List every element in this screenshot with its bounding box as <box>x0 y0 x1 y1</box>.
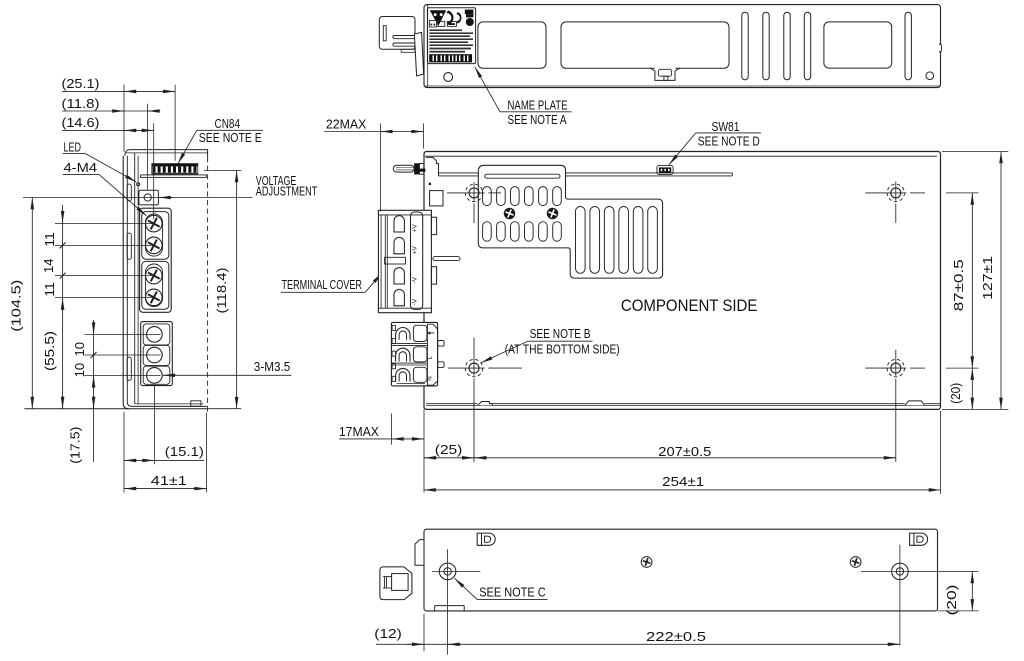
left view panel line 2 <box>137 156 139 404</box>
svg-text:N: N <box>427 376 434 380</box>
svg-text:207±0.5: 207±0.5 <box>658 444 711 459</box>
vent bracket ovals <box>483 187 562 242</box>
flange slot 1 <box>127 184 131 201</box>
svg-text:(15.1): (15.1) <box>165 444 204 459</box>
voltage adjustment bracket <box>139 190 159 205</box>
left view hidden edge (dashed) <box>207 157 209 413</box>
top view bottom edge thick line <box>425 85 941 87</box>
AC pointer lines <box>85 334 161 375</box>
svg-text:11: 11 <box>42 232 57 247</box>
left view top lid <box>125 150 208 157</box>
ext line LED/pot <box>147 104 149 190</box>
AC screw M3.5 #3 <box>147 368 163 384</box>
svg-text:22MAX: 22MAX <box>326 116 367 131</box>
component bottom clip left <box>477 401 492 406</box>
dim 17MAX <box>339 424 424 439</box>
top view vent slots <box>742 12 811 80</box>
svg-text:CN84: CN84 <box>215 116 241 131</box>
svg-text:-V: -V <box>412 276 419 283</box>
svg-text:14: 14 <box>41 258 56 273</box>
D stamp left <box>477 533 495 545</box>
small dot on edge <box>429 183 431 185</box>
top view chassis body <box>424 5 941 88</box>
output block divider <box>385 257 406 264</box>
left view inner flange edge <box>127 156 207 407</box>
chain arrows/ticks <box>60 209 66 409</box>
output terminal group 2 <box>142 261 169 309</box>
output terminal recess 1 <box>145 214 162 256</box>
dim (25) and 207±0.5 <box>424 442 896 459</box>
AC screw M3.5 #1 <box>147 327 163 343</box>
top view connector lower lip <box>401 49 415 52</box>
name plate label <box>427 8 475 64</box>
bottom screw left <box>432 549 480 654</box>
bottom view body <box>424 529 938 611</box>
svg-text:COMPONENT SIDE: COMPONENT SIDE <box>621 296 758 315</box>
svg-text:17MAX: 17MAX <box>339 424 379 439</box>
bottom view connector housing <box>380 567 412 600</box>
chassis rail bar <box>439 173 733 176</box>
top view input connector housing <box>379 17 415 50</box>
AC block outline (component view) <box>391 322 437 386</box>
output clamp 1 <box>394 216 404 232</box>
dim (20) bottom <box>944 571 973 615</box>
AC label ground <box>427 331 434 335</box>
ext line CN84 center <box>174 85 176 161</box>
connector CN84 (left view) <box>152 164 198 174</box>
output clamp 4 <box>394 289 404 305</box>
label SEE NOTE B <box>481 326 620 363</box>
label LED <box>63 139 136 182</box>
AC input block outline (left view) <box>141 322 173 386</box>
AC block divider bands <box>391 344 427 365</box>
AC label L <box>427 356 434 360</box>
svg-text:87±0.5: 87±0.5 <box>951 259 966 311</box>
svg-text:11: 11 <box>42 282 57 297</box>
svg-text:10: 10 <box>72 342 87 357</box>
svg-text:127±1: 127±1 <box>980 256 995 300</box>
output terminal block outline (left view) <box>140 208 172 312</box>
svg-text:(12): (12) <box>374 626 402 641</box>
svg-text:+V: +V <box>412 224 419 233</box>
svg-text:-V: -V <box>412 298 419 305</box>
AC label N <box>427 376 434 380</box>
top view pilot circle <box>444 73 453 82</box>
mounting hole bottom-left <box>448 338 522 462</box>
left view bottom baseline <box>24 408 208 410</box>
svg-text:(55.5): (55.5) <box>42 331 57 371</box>
output labels +V -V <box>412 224 419 306</box>
top view cutout 1 <box>478 22 546 68</box>
svg-text:254±1: 254±1 <box>662 474 704 489</box>
label 4-M4 <box>63 160 147 216</box>
svg-text:(11.8): (11.8) <box>62 96 100 111</box>
output screw M4 #2 <box>145 236 163 254</box>
label TERMINAL COVER <box>281 273 382 292</box>
bottom view connector socket <box>383 577 392 588</box>
output clamp 3 <box>394 268 404 284</box>
dim (12) and 222±0.5 <box>374 626 900 644</box>
label CN84 <box>178 116 263 164</box>
chain dim line 10/10 <box>93 320 95 462</box>
svg-text:SEE NOTE C: SEE NOTE C <box>479 584 546 599</box>
svg-text:(104.5): (104.5) <box>8 280 23 332</box>
screw pointer lines <box>55 224 155 298</box>
ext line screw center <box>153 123 155 219</box>
dim 22MAX <box>324 116 424 211</box>
top view connector flag bracket <box>414 32 423 76</box>
dim (104.5) <box>8 198 32 409</box>
mounting hole top-left <box>447 182 501 223</box>
voltage pot shaft <box>393 165 414 172</box>
CN84 base plate <box>141 175 207 178</box>
bottom mid screw 1 <box>641 557 652 568</box>
top view right edge notch <box>939 44 942 52</box>
name plate leader <box>475 67 572 112</box>
dim 87±0.5 <box>951 193 972 368</box>
AC screw M3.5 #2 <box>147 347 163 363</box>
AC clamp 2 <box>396 348 410 361</box>
top view folded edge inner line <box>427 5 429 88</box>
left view bottom clip <box>191 401 201 406</box>
svg-text:SEE NOTE D: SEE NOTE D <box>698 134 760 149</box>
svg-text:222±0.5: 222±0.5 <box>646 629 706 644</box>
AC block bottom inner line <box>397 383 425 385</box>
vent panel slots <box>576 207 658 274</box>
dim (15.1) <box>124 386 207 493</box>
label SEE NOTE C <box>455 578 548 599</box>
svg-text:NAME PLATE: NAME PLATE <box>508 97 568 112</box>
top view cutout 2 <box>561 22 729 68</box>
output screw M4 #3 <box>145 267 163 285</box>
flange slot 2 <box>127 233 131 259</box>
small square cutout <box>430 191 443 206</box>
component view top inner line <box>425 155 937 157</box>
output terminal group 1 <box>142 212 169 260</box>
top view connector pin 2 <box>393 43 421 46</box>
dim (118.4) <box>204 170 241 408</box>
ref line top (volt adj) <box>23 197 253 199</box>
svg-text:(14.6): (14.6) <box>62 115 100 130</box>
label 3-M3.5 <box>163 359 292 375</box>
output block cover lines <box>381 215 387 308</box>
bottom screw right <box>861 545 979 646</box>
svg-text:ADJUSTMENT: ADJUSTMENT <box>256 184 318 199</box>
vent plate outline <box>478 165 662 278</box>
AC input cell 3 <box>143 366 170 384</box>
mounting hole bottom-right <box>865 350 925 462</box>
bottom view edge bump <box>415 540 424 566</box>
bracket screw 1 <box>504 208 515 219</box>
svg-text:TERMINAL COVER: TERMINAL COVER <box>282 277 363 292</box>
D stamp right <box>910 533 928 545</box>
bottom mid screw 2 <box>850 557 861 568</box>
label NAME PLATE <box>508 97 568 112</box>
vent bracket top slot <box>485 174 560 178</box>
svg-text:SW81: SW81 <box>712 119 740 134</box>
svg-text:LED: LED <box>64 139 82 154</box>
voltage adjustment hole <box>144 194 151 201</box>
chain2 arrows/ticks <box>91 321 97 409</box>
bottom ext line right <box>938 610 979 612</box>
left view outer left edge <box>123 156 129 409</box>
component view right ext line <box>940 411 942 494</box>
dim (14.6) <box>62 115 154 130</box>
dim (55.5) label <box>42 331 57 371</box>
AC label strip <box>427 324 437 385</box>
ext line left face <box>123 85 125 152</box>
svg-text:41±1: 41±1 <box>151 473 187 488</box>
svg-text:3-M3.5: 3-M3.5 <box>254 359 290 374</box>
svg-text:4-M4: 4-M4 <box>64 160 98 175</box>
svg-text:(20): (20) <box>948 383 963 404</box>
chain2 labels <box>68 342 87 464</box>
label VOLTAGE ADJUSTMENT <box>256 173 318 199</box>
voltage pot body <box>414 163 425 174</box>
mounting hole top-right <box>865 182 925 224</box>
left view panel line 1 <box>134 153 136 404</box>
label SEE NOTE A <box>508 112 567 127</box>
top view bottom clip tab <box>650 67 679 81</box>
svg-text:(17.5): (17.5) <box>68 427 83 464</box>
chain labels 11 14 11 <box>41 232 57 297</box>
svg-text:L: L <box>427 356 434 360</box>
bottom ext line left <box>423 614 425 651</box>
output block plate <box>411 212 423 309</box>
svg-text:(25.1): (25.1) <box>62 76 100 91</box>
svg-text:SEE NOTE E: SEE NOTE E <box>199 130 262 145</box>
bottom view notch <box>435 606 465 611</box>
AC right pins <box>438 341 445 368</box>
dim 41±1 <box>124 473 207 489</box>
dim (11.8) <box>62 96 161 111</box>
dim (25.1) <box>62 76 176 91</box>
svg-text:SEE NOTE A: SEE NOTE A <box>508 112 567 127</box>
svg-text:(118.4): (118.4) <box>214 268 229 314</box>
dim 254±1 <box>424 474 941 490</box>
output screw M4 #1 <box>145 215 163 233</box>
component view bottom fold lines <box>426 404 940 406</box>
label SW81 <box>669 119 761 165</box>
component bottom clip right <box>905 401 925 406</box>
component view corner latch <box>426 157 439 176</box>
component view left ext line <box>423 409 425 492</box>
top view vent slot right <box>905 12 911 80</box>
AC clamp 1 <box>396 328 410 340</box>
bottom view connector inner <box>392 574 409 591</box>
component view body <box>424 152 941 410</box>
AC pads <box>413 325 427 382</box>
chain dim line 11/14/11 <box>62 205 64 409</box>
top view cutout 3 <box>824 22 892 68</box>
top view connector inner bar <box>383 26 386 41</box>
output clamp 2 <box>394 237 404 253</box>
top view connector pin 1 <box>393 36 421 39</box>
AC input cell 2 <box>143 345 170 365</box>
left view inner bottom line <box>135 403 204 405</box>
output screw M4 #4 <box>145 288 163 306</box>
output terminal recess 2 <box>145 264 162 307</box>
ext lines right <box>942 152 1008 410</box>
volt adj arrow <box>159 197 173 199</box>
dim 127±1 <box>980 152 1001 410</box>
svg-text:(20): (20) <box>944 585 959 616</box>
AC block finger squares <box>392 325 395 381</box>
output block outline <box>378 210 431 312</box>
output block inner top/bottom <box>378 215 431 308</box>
svg-text:SEE NOTE B: SEE NOTE B <box>530 326 591 341</box>
AC input cell 1 <box>143 324 170 345</box>
LED dot <box>137 183 140 186</box>
flange slot 3 <box>127 357 131 380</box>
dim (20) component <box>948 368 972 409</box>
svg-text:+V: +V <box>412 245 419 254</box>
label COMPONENT SIDE <box>621 296 758 315</box>
bracket screw 2 <box>547 208 558 219</box>
switch SW81 <box>657 166 673 175</box>
ext line 17MAX <box>391 414 393 445</box>
test pin <box>433 257 460 261</box>
AC clamp 3 <box>396 368 410 381</box>
top view small circle right <box>926 72 934 80</box>
output block tabs <box>431 217 436 284</box>
svg-text:(25): (25) <box>435 442 463 457</box>
